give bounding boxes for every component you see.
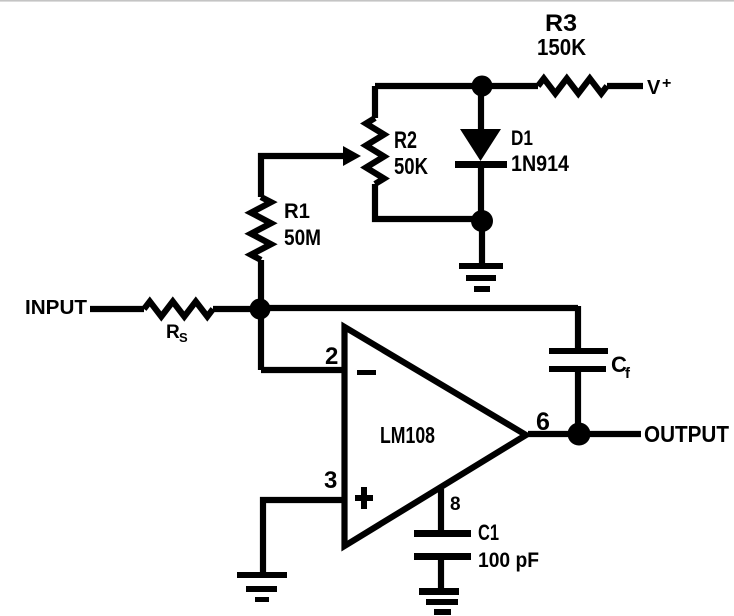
- svg-text:INPUT: INPUT: [25, 297, 87, 319]
- wire R1 top to corner: [261, 156, 344, 197]
- resistor R3: [538, 79, 607, 94]
- top scan edge line: [0, 0, 734, 2]
- svg-text:+: +: [662, 75, 671, 92]
- capacitor C1 plates: [414, 530, 471, 537]
- svg-text:2: 2: [325, 343, 338, 370]
- svg-text:100 pF: 100 pF: [478, 549, 539, 572]
- svg-text:150K: 150K: [537, 34, 586, 60]
- svg-text:R: R: [166, 322, 180, 343]
- resistor R1: [251, 197, 271, 260]
- wire R3 to V+ terminal: [607, 83, 643, 89]
- wire pin 8 vertical: [438, 489, 444, 531]
- svg-text:D1: D1: [511, 127, 533, 150]
- wire input segment left: [90, 306, 144, 312]
- node B junction dot: [472, 76, 493, 97]
- op-amp U1 triangle: [345, 327, 527, 546]
- ground under node C: [459, 263, 503, 292]
- node C junction dot: [471, 210, 493, 232]
- resistor R2: [366, 118, 384, 184]
- wire top horizontal to R3: [375, 83, 538, 89]
- op-amp minus sign: [357, 370, 376, 375]
- wire node A down to pin2: [258, 308, 264, 370]
- wire R2 bottom to node C: [375, 184, 482, 219]
- svg-text:R3: R3: [545, 10, 577, 37]
- wire Rs to node A: [213, 306, 260, 312]
- wire diode branch lower to node C: [478, 165, 484, 221]
- wire C1 bottom to ground: [438, 558, 444, 589]
- op-amp plus sign: [355, 487, 373, 509]
- wire Cf bottom to node D: [575, 371, 581, 434]
- wire feedback vertical down to Cf: [575, 306, 581, 349]
- svg-text:6: 6: [536, 408, 550, 436]
- svg-text:50M: 50M: [284, 225, 321, 250]
- ground at pin 3: [237, 572, 287, 602]
- svg-text:S: S: [179, 330, 188, 345]
- diode D1 cathode bar: [455, 161, 507, 168]
- svg-text:3: 3: [324, 467, 337, 494]
- svg-text:50K: 50K: [394, 153, 428, 179]
- svg-text:LM108: LM108: [380, 422, 435, 448]
- capacitor Cf plates: [549, 348, 608, 354]
- diode D1 body: [460, 129, 501, 161]
- node D junction dot: [568, 423, 591, 446]
- wire pin 3: [263, 500, 345, 574]
- wiper arrowhead into R2: [343, 146, 361, 166]
- wire diode branch upper: [478, 86, 484, 130]
- svg-text:R2: R2: [394, 127, 417, 154]
- wire R2 top branch: [372, 86, 378, 118]
- wire pin 2: [261, 367, 345, 373]
- resistor Rs: [144, 302, 213, 317]
- wire pin 6 output: [528, 431, 641, 437]
- wire node A up to R1: [258, 260, 264, 309]
- svg-text:8: 8: [450, 494, 461, 515]
- svg-text:C1: C1: [478, 520, 499, 545]
- svg-text:OUTPUT: OUTPUT: [644, 421, 729, 447]
- svg-text:1N914: 1N914: [511, 151, 570, 176]
- wire node C to ground: [479, 221, 485, 265]
- node A junction dot: [250, 299, 271, 320]
- ground under C1: [419, 588, 459, 615]
- wire main feedback horizontal: [260, 305, 578, 311]
- svg-text:V: V: [647, 77, 661, 99]
- svg-text:R1: R1: [284, 200, 310, 223]
